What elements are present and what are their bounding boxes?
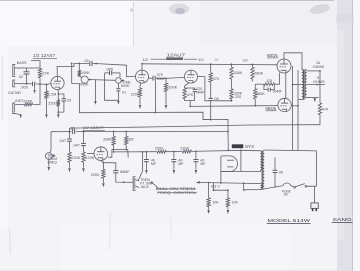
wire vol pot bottom to bus <box>78 83 80 112</box>
wire vol pot left loop <box>71 63 80 84</box>
label 1/2 12AX7 trem <box>83 125 105 130</box>
svg-text:6BQ5: 6BQ5 <box>267 53 278 58</box>
svg-text:180: 180 <box>242 59 248 63</box>
svg-text:2200: 2200 <box>48 101 56 105</box>
wire plate V1a to coupling <box>57 63 89 76</box>
svg-text:500K: 500K <box>121 84 130 88</box>
svg-text:.005: .005 <box>20 86 27 90</box>
capacitor .047 first <box>59 131 72 153</box>
wire link to trem rail <box>69 128 71 132</box>
jack trem footswitch <box>133 177 139 191</box>
svg-text:.01: .01 <box>121 90 126 94</box>
ground guitar stub <box>33 84 35 94</box>
svg-text:27K: 27K <box>42 71 49 76</box>
svg-text:2200: 2200 <box>131 92 139 96</box>
resistor 27K <box>38 68 49 84</box>
resistor 220K inst <box>15 84 40 105</box>
svg-text:12AU7: 12AU7 <box>167 53 186 58</box>
svg-text:330K: 330K <box>234 71 243 75</box>
svg-text:2200: 2200 <box>155 147 163 151</box>
ground cathode V2a <box>139 105 142 109</box>
svg-text:100: 100 <box>232 200 238 204</box>
wire OT primary bottom vertical <box>298 70 302 151</box>
resistor 100 heater 2 <box>226 190 238 209</box>
wire plate riser V2a <box>141 63 143 70</box>
svg-text:.05: .05 <box>214 97 219 101</box>
svg-text:.05: .05 <box>70 126 75 130</box>
svg-text:220: 220 <box>235 95 241 99</box>
ground 2.2M <box>45 114 48 118</box>
wire 8 ohm tap <box>307 76 326 85</box>
ground cathode V1a <box>57 114 60 118</box>
ground heater 1 <box>207 210 210 214</box>
svg-text:2.2M: 2.2M <box>48 92 56 96</box>
svg-text:470K: 470K <box>85 156 94 160</box>
ground secondary <box>314 98 317 102</box>
capacitor .047 second <box>72 131 86 152</box>
capacitor 50MF bypass <box>264 84 283 93</box>
capacitor .005 tone <box>105 68 120 76</box>
wire primary top to switch <box>264 150 316 186</box>
transformer T1 secondary HV <box>260 151 261 170</box>
svg-text:MODEL 514W: MODEL 514W <box>268 218 311 224</box>
pot TONE 500K <box>116 78 132 89</box>
svg-text:100K: 100K <box>81 71 90 75</box>
pentode 6BQ5 lower <box>278 98 291 111</box>
transformer T2 output primary <box>302 70 304 100</box>
capacitor 370MMF coupling <box>149 73 185 81</box>
svg-text:.047: .047 <box>72 144 79 148</box>
svg-text:JACK: JACK <box>140 185 149 189</box>
wire trem pot ground <box>48 159 50 166</box>
wire trem cathode <box>101 160 105 169</box>
ground 220K <box>68 168 71 172</box>
capacitor 40MF filter 3 <box>193 151 206 170</box>
svg-text:MMF: MMF <box>196 91 205 95</box>
resistor 1M <box>125 131 134 145</box>
triode V3 trem 12AX7 <box>94 147 108 161</box>
svg-text:47K: 47K <box>187 93 194 97</box>
svg-text:80MF: 80MF <box>120 170 130 174</box>
svg-text:1/2: 1/2 <box>142 57 148 62</box>
svg-text:470: 470 <box>213 77 219 81</box>
wire drop from 370 cap <box>155 81 157 114</box>
resistor 2200 cathode V2a <box>131 83 142 105</box>
wire trem supply rail <box>51 130 228 132</box>
wire grid line lower 6BQ5 <box>190 105 278 108</box>
svg-text:1M: 1M <box>128 137 133 141</box>
resistor 2200 cathode V1a <box>48 100 60 114</box>
pentode 6BQ5 upper <box>277 59 291 73</box>
wire feedback long line <box>70 125 321 128</box>
wire jack to rail <box>138 151 143 181</box>
ground heater 2 <box>227 210 230 214</box>
wire B+ rail <box>114 150 243 152</box>
transformer T2 core <box>304 70 305 100</box>
label dial on trem <box>156 187 196 191</box>
resistor 330K 220 lower divider <box>230 89 243 102</box>
input jack J1 BASS <box>13 61 27 76</box>
capacitor .02 coupling <box>83 59 126 66</box>
capacitor 80MF trem <box>103 163 133 183</box>
wire rectifier cathode <box>240 150 242 172</box>
label MODEL 514W <box>267 218 311 224</box>
resistor 2.2M grid leak <box>45 84 56 113</box>
wire bus mid <box>79 112 229 151</box>
svg-text:.047: .047 <box>59 139 66 143</box>
label 180 over line <box>242 59 248 63</box>
wire cathode V1a <box>57 90 60 100</box>
svg-text:680K: 680K <box>256 92 265 96</box>
svg-text:3A: 3A <box>284 193 289 197</box>
input jack J3 INST <box>13 99 24 114</box>
wire rectifier left <box>220 156 222 184</box>
capacitor 40MF filter 2 <box>171 151 184 170</box>
svg-text:2200: 2200 <box>91 173 99 177</box>
svg-text:BASS: BASS <box>17 61 27 65</box>
capacitor .01 tone <box>116 84 126 101</box>
transformer T1 core <box>261 151 264 190</box>
label 25 over line <box>215 58 219 62</box>
svg-text:50MF: 50MF <box>273 89 283 93</box>
triode V2a 12AU7 <box>136 70 149 83</box>
svg-text:100: 100 <box>212 200 218 204</box>
transformer T1 heater winding <box>260 184 262 190</box>
wire B+ vertical left <box>292 66 294 151</box>
svg-text:6.3 V: 6.3 V <box>211 185 220 189</box>
svg-text:25: 25 <box>215 58 219 62</box>
label trem jack <box>140 178 152 189</box>
wire secondary bottom <box>307 97 319 99</box>
svg-text:MF: MF <box>151 162 157 166</box>
transformer T2 secondary <box>305 70 307 98</box>
wire plate upper 6BQ5 to OT <box>284 53 302 70</box>
ground inst jack <box>15 114 23 119</box>
resistor 330K upper divider <box>230 63 243 88</box>
capacitor .05 line filter <box>273 157 283 187</box>
resistor 125 cathode bias <box>255 73 279 86</box>
ground trem pot <box>48 167 51 171</box>
wire rectifier bottom <box>221 171 241 173</box>
svg-text:220K: 220K <box>24 100 33 104</box>
resistor 2200 filter 1 <box>155 147 166 154</box>
ground 470K <box>82 168 85 172</box>
svg-text:500K: 500K <box>80 83 89 87</box>
input jack J2 GUITAR <box>8 80 21 95</box>
resistor 100K <box>78 63 91 76</box>
svg-text:MF: MF <box>200 162 206 166</box>
svg-text:MF: MF <box>178 162 184 166</box>
transformer T1 primary <box>263 151 264 190</box>
resistor 47K feedback <box>318 71 329 125</box>
capacitor .005 guitar input <box>20 82 34 90</box>
wire to V2a grid <box>127 65 136 76</box>
label 6BQ5 upper <box>267 53 278 58</box>
wire bass link upper <box>30 61 41 69</box>
wire plug drop <box>314 186 316 203</box>
capacitor 40MF filter 1 <box>144 151 157 170</box>
wire guitar line <box>15 83 47 85</box>
label 1/2 12AX7 <box>33 53 57 58</box>
wire grid node to tube V1 <box>46 84 52 86</box>
ground trem cathode <box>102 183 105 187</box>
resistor 100K grid V2b <box>164 78 177 105</box>
svg-text:280K: 280K <box>254 71 263 75</box>
AC plug <box>311 203 318 211</box>
resistor 280K <box>251 64 264 82</box>
svg-text:OHMS: OHMS <box>313 80 325 84</box>
ground filter 3 <box>195 170 198 174</box>
node plate junction <box>78 63 80 65</box>
svg-text:6BQ5: 6BQ5 <box>266 106 277 111</box>
wire HV bottom <box>241 170 261 171</box>
label freq control <box>157 191 197 195</box>
resistor 470 plate V2b <box>209 63 219 98</box>
svg-text:GUITAR: GUITAR <box>8 91 21 95</box>
svg-text:25: 25 <box>67 99 71 103</box>
ground filter 1 <box>145 170 148 174</box>
ground filter 2 <box>173 170 176 174</box>
svg-text:1/2: 1/2 <box>198 57 204 62</box>
ground tone <box>117 101 120 105</box>
wire primary bottom AC <box>264 186 283 189</box>
triode V2b 12AU7 <box>185 70 198 83</box>
capacitor .02 bass input <box>18 68 30 84</box>
svg-text:SANO: SANO <box>333 217 352 223</box>
resistor 47K cathode V2b <box>183 82 194 100</box>
arrow label to jack <box>150 181 158 188</box>
wire tone box left <box>105 73 119 100</box>
resistor 2200 filter 2 <box>180 146 191 153</box>
svg-text:220K: 220K <box>71 156 80 160</box>
wire HV top to rail <box>243 149 260 152</box>
wire wiper to tone <box>92 79 116 82</box>
wire heater tap 2 <box>246 189 261 191</box>
svg-text:MMF: MMF <box>157 77 166 81</box>
pot TREM FREQ 500K <box>45 153 57 165</box>
rectifier V4 5Y3 <box>222 156 238 172</box>
fuse 3A <box>282 183 294 197</box>
wire plate lower 6BQ5 <box>291 105 299 107</box>
resistor 100 heater 1 <box>207 182 219 210</box>
wire heater rail <box>196 181 260 184</box>
ground 100K <box>165 105 168 109</box>
wire B+ top line <box>142 64 277 65</box>
wire cathode to grid line <box>189 101 191 108</box>
triode V1a 1/2 12AX7 <box>51 76 64 89</box>
capacitor .05 trem rail <box>70 126 75 134</box>
label 12AU7 <box>142 53 204 62</box>
resistor 470K trem <box>82 152 95 168</box>
label 5Y3 blacked <box>232 144 254 150</box>
svg-text:2200: 2200 <box>180 146 188 150</box>
switch power <box>294 184 317 189</box>
label SANO <box>332 217 353 223</box>
svg-text:47K: 47K <box>322 107 329 111</box>
wire tone box right <box>119 73 121 77</box>
resistor 330K trem plate <box>103 131 115 150</box>
svg-text:.05: .05 <box>278 171 283 175</box>
wire plate junction trem <box>108 145 128 158</box>
svg-text:.005: .005 <box>106 68 113 72</box>
svg-text:330K: 330K <box>103 138 112 142</box>
capacitor .05 coupling upper <box>209 97 232 101</box>
svg-text:100K: 100K <box>168 85 177 89</box>
label 6BQ5 lower <box>266 106 277 111</box>
capacitor 25MF cathode bypass <box>57 93 71 113</box>
wire bass jack to cap <box>15 67 30 69</box>
wire 470 lower drop <box>210 101 212 121</box>
wire trem pot drop <box>50 132 51 153</box>
svg-text:1/2 12AX7: 1/2 12AX7 <box>33 53 56 58</box>
wire 6.3V line <box>211 183 229 191</box>
svg-text:5Y3: 5Y3 <box>245 144 254 150</box>
svg-text:OHMS: OHMS <box>313 65 325 69</box>
svg-text:.02: .02 <box>83 59 88 63</box>
wire trem grid <box>87 153 94 155</box>
svg-text:1/2 12AX7: 1/2 12AX7 <box>83 125 105 130</box>
wire heater stub <box>243 182 246 191</box>
wire 16 ohm tap <box>307 61 325 72</box>
capacitor 220MMF bypass <box>185 87 206 100</box>
resistor 2200 trem cathode <box>91 169 105 183</box>
wire OT center tap <box>293 84 302 86</box>
wire plate V2b <box>198 77 209 101</box>
pot VOLUME 500K <box>79 76 91 87</box>
svg-text:125: 125 <box>266 79 272 83</box>
resistor 220K trem <box>68 152 81 168</box>
svg-text:.02: .02 <box>18 75 23 79</box>
wire screens <box>285 73 287 98</box>
resistor 680K <box>254 84 266 106</box>
ground wiper line stub <box>94 80 97 105</box>
